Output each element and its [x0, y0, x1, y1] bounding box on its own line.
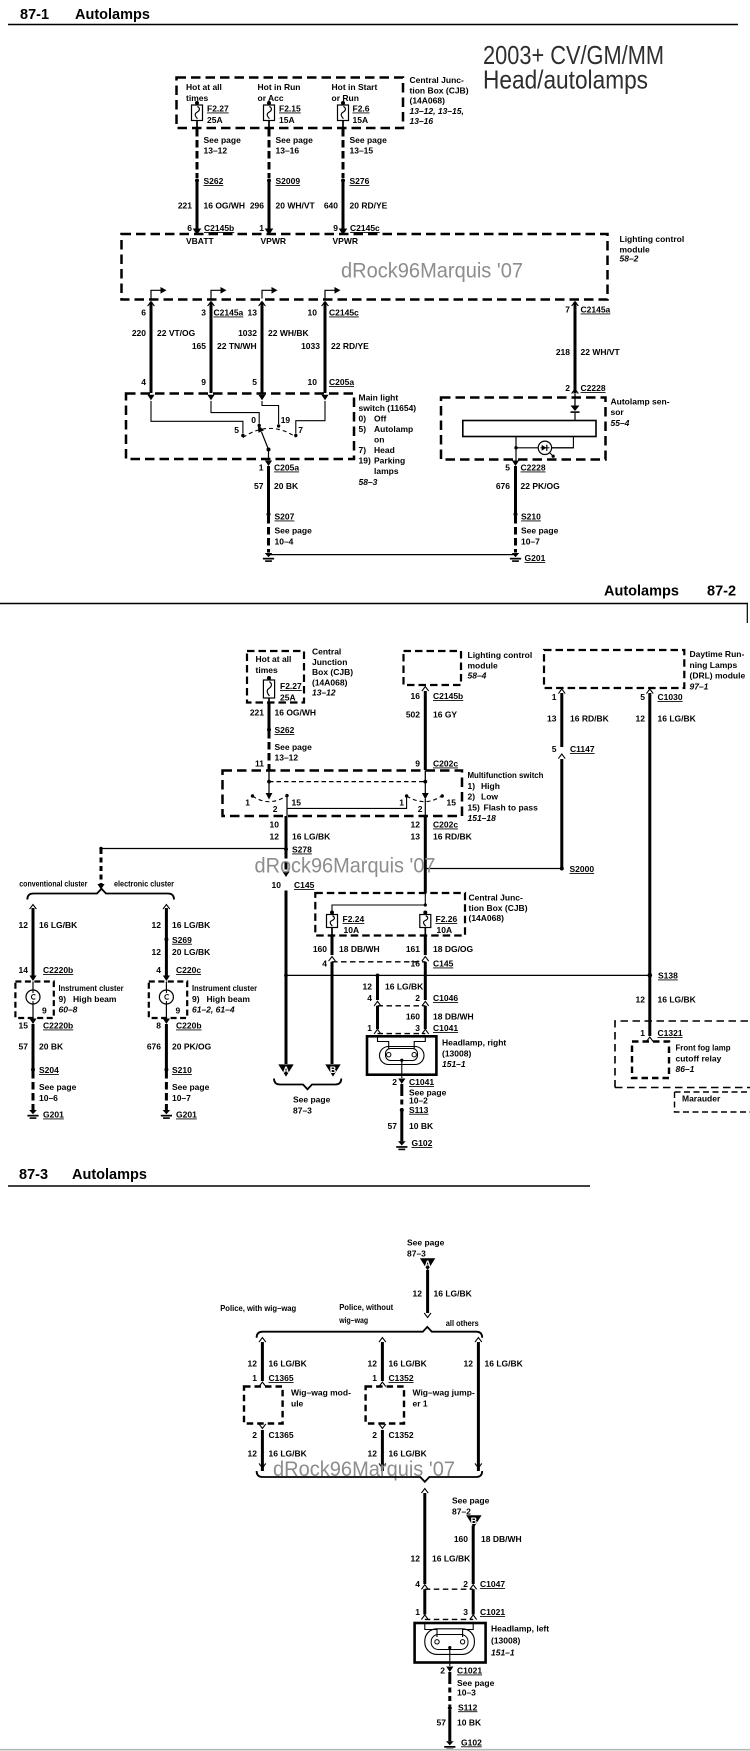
brace cluster alternatives	[27, 889, 174, 900]
svg-text:4: 4	[322, 959, 327, 969]
svg-text:13–15: 13–15	[350, 146, 374, 156]
svg-text:See page: See page	[452, 1496, 490, 1506]
svg-text:C1030: C1030	[658, 692, 683, 702]
svg-text:151–1: 151–1	[491, 1648, 515, 1658]
svg-text:87–2: 87–2	[452, 1507, 471, 1517]
svg-text:5: 5	[640, 692, 645, 702]
label see page 10-2	[409, 1088, 447, 1106]
label hot in start or run	[332, 82, 378, 103]
fuse F2.27 25A (page 87-2)	[263, 676, 302, 703]
svg-text:87-2: 87-2	[707, 584, 736, 600]
sensor body rectangle	[463, 421, 596, 437]
svg-text:1): 1)	[468, 781, 476, 791]
svg-text:S278: S278	[292, 845, 312, 855]
wire S262 to multifunction switch pin 11 (dashed)	[268, 731, 271, 770]
svg-text:160: 160	[454, 1534, 468, 1544]
central junction box CJB (14A068)	[177, 78, 404, 129]
wire S276 to VPWR pin 9	[342, 182, 345, 229]
svg-text:F2.6: F2.6	[353, 104, 370, 114]
label instrument cluster 60-8	[59, 983, 125, 1015]
wire 13 16 RD/BK	[547, 693, 610, 747]
marauder box	[675, 1092, 750, 1112]
svg-text:13: 13	[248, 308, 258, 318]
svg-text:60–8: 60–8	[59, 1005, 78, 1015]
svg-text:See page: See page	[172, 1082, 210, 1092]
svg-text:640: 640	[324, 201, 338, 211]
svg-text:16 LG/BK: 16 LG/BK	[389, 1359, 428, 1369]
wire 218 22 WH/VT	[556, 302, 621, 394]
wire fuse F2.27 to S262 (dashed)	[196, 121, 198, 129]
mf right contact 1	[399, 794, 408, 807]
svg-text:1: 1	[399, 798, 404, 808]
svg-text:C2145c: C2145c	[350, 223, 380, 233]
splice S112	[448, 1702, 478, 1712]
svg-text:15A: 15A	[279, 115, 295, 125]
wire 160 18 DB/WH from B	[454, 1526, 522, 1585]
svg-text:10: 10	[272, 880, 282, 890]
svg-text:676: 676	[496, 481, 510, 491]
wire label 12 16 LG/BK conv	[19, 920, 79, 930]
headlamp left bulb	[425, 1623, 437, 1637]
svg-text:2: 2	[440, 1666, 445, 1676]
svg-text:6: 6	[187, 223, 192, 233]
svg-text:55–4: 55–4	[611, 418, 630, 428]
splice S262	[195, 176, 224, 186]
svg-text:12: 12	[248, 1359, 258, 1369]
pin 13 chevron and label	[248, 302, 266, 318]
svg-text:10–3: 10–3	[457, 1687, 476, 1697]
wire 160 18 DB/WH below F2.24	[313, 928, 380, 956]
svg-text:160: 160	[313, 944, 327, 954]
label central junction box 3	[469, 893, 528, 924]
svg-text:C1352: C1352	[389, 1373, 414, 1383]
svg-text:See page: See page	[275, 526, 313, 536]
svg-text:S204: S204	[39, 1065, 59, 1075]
svg-text:5: 5	[505, 463, 510, 473]
svg-text:S269: S269	[172, 935, 192, 945]
label see page 10-7	[521, 526, 559, 547]
pin 2 C1365	[252, 1424, 294, 1440]
label wig-wag jumper 1	[413, 1388, 475, 1409]
wire F2.27 to S262 2	[268, 698, 270, 704]
svg-text:19): 19)	[359, 456, 371, 466]
high beam indicator bulb conventional	[32, 982, 34, 991]
svg-text:See page: See page	[457, 1678, 495, 1688]
label daytime running lamps module 97-1	[690, 649, 746, 691]
svg-text:12: 12	[363, 982, 373, 992]
svg-text:C1021: C1021	[480, 1607, 505, 1617]
svg-text:16: 16	[411, 691, 421, 701]
connector C1047 line	[415, 1579, 505, 1589]
wire S138 interconnect line	[286, 974, 650, 976]
svg-text:10: 10	[308, 377, 318, 387]
svg-text:(DRL) module: (DRL) module	[690, 671, 746, 681]
arrow into lighting control module pin 6	[193, 229, 202, 236]
svg-text:Main light: Main light	[359, 393, 399, 403]
svg-text:F2.24: F2.24	[343, 914, 365, 924]
svg-text:220: 220	[132, 328, 146, 338]
central junction box CJB 3 box	[315, 893, 465, 936]
label main light switch 11654	[359, 393, 417, 488]
brace see page 87-3	[274, 1079, 341, 1090]
svg-text:22 VT/OG: 22 VT/OG	[157, 328, 196, 338]
branch junction on S138 line	[376, 974, 380, 978]
wire 160 18 DB/WH to C1041	[406, 1006, 474, 1029]
svg-text:18 DG/OG: 18 DG/OG	[433, 944, 474, 954]
svg-text:221: 221	[250, 708, 264, 718]
photocell to sensor body wire	[552, 437, 574, 448]
pin 5 C1030 DRL	[640, 689, 683, 702]
wire 165 22 TN/WH	[192, 302, 257, 393]
wire 12 16 LG/BK branch	[363, 975, 425, 1000]
label see page 13-12	[204, 135, 242, 156]
svg-text:5: 5	[252, 377, 257, 387]
label wig-wag module	[291, 1388, 351, 1409]
svg-text:C1021: C1021	[457, 1666, 482, 1676]
svg-text:or Acc: or Acc	[258, 93, 284, 103]
switch contact 7	[294, 425, 303, 437]
svg-text:C1147: C1147	[570, 744, 595, 754]
svg-text:C1041: C1041	[409, 1077, 434, 1087]
svg-text:9): 9)	[59, 994, 67, 1004]
svg-text:15): 15)	[468, 802, 480, 812]
svg-text:7: 7	[565, 305, 570, 315]
svg-text:58–4: 58–4	[468, 671, 487, 681]
svg-text:C220b: C220b	[176, 1021, 202, 1031]
svg-text:1: 1	[252, 1373, 257, 1383]
svg-text:Low: Low	[481, 792, 498, 802]
wire label 12 16 LG/BK elec	[152, 920, 212, 930]
svg-text:or Run: or Run	[332, 93, 359, 103]
svg-text:9: 9	[415, 759, 420, 769]
svg-text:See page: See page	[204, 135, 242, 145]
pin 5 C1147	[552, 744, 595, 759]
svg-text:High beam: High beam	[73, 994, 117, 1004]
svg-text:0: 0	[251, 415, 256, 425]
svg-text:S207: S207	[275, 512, 295, 522]
svg-text:Lighting control: Lighting control	[620, 234, 685, 244]
svg-text:0): 0)	[359, 414, 367, 424]
wire C1047 to C1021 left	[423, 1589, 426, 1614]
svg-text:151–1: 151–1	[442, 1059, 466, 1069]
svg-text:221: 221	[178, 201, 192, 211]
svg-text:High: High	[481, 781, 500, 791]
svg-text:Lighting control: Lighting control	[468, 650, 533, 660]
label instrument cluster 61-2 61-4	[192, 983, 258, 1015]
svg-text:C220c: C220c	[176, 965, 201, 975]
svg-text:20 PK/OG: 20 PK/OG	[172, 1042, 212, 1052]
pin 6 C2145b	[187, 223, 234, 233]
headlamp left box	[415, 1623, 486, 1663]
pin 1 C1321	[640, 1028, 683, 1042]
svg-text:10–4: 10–4	[275, 537, 294, 547]
front fog lamp cutoff relay outer box	[615, 1021, 750, 1088]
svg-text:25A: 25A	[280, 693, 296, 703]
svg-text:1: 1	[372, 1373, 377, 1383]
svg-text:C2145a: C2145a	[214, 308, 244, 318]
label lighting control module 58-2	[620, 234, 685, 264]
svg-text:160: 160	[406, 1012, 420, 1022]
svg-text:Autolamp sen-: Autolamp sen-	[611, 397, 670, 407]
svg-text:Headlamp, right: Headlamp, right	[442, 1038, 506, 1048]
svg-text:16 OG/WH: 16 OG/WH	[275, 708, 317, 718]
svg-text:12: 12	[636, 714, 646, 724]
pin 1 C205a switch output	[259, 461, 300, 473]
svg-text:F2.27: F2.27	[207, 104, 229, 114]
svg-text:Police, with wig–wag: Police, with wig–wag	[220, 1303, 296, 1313]
svg-text:2): 2)	[468, 792, 476, 802]
wire from brace to C1047	[421, 1489, 428, 1585]
svg-text:57: 57	[254, 481, 264, 491]
svg-text:See page: See page	[276, 135, 314, 145]
svg-text:Multifunction switch: Multifunction switch	[468, 770, 544, 780]
svg-text:S276: S276	[350, 176, 370, 186]
svg-text:2: 2	[252, 1430, 257, 1440]
headlamp right box	[367, 1036, 436, 1074]
svg-text:VPWR: VPWR	[261, 236, 287, 246]
svg-text:G201: G201	[525, 553, 546, 563]
wire S204 to ground dashed	[32, 1071, 35, 1110]
svg-text:4: 4	[367, 993, 372, 1003]
label see page 10-4	[275, 526, 313, 547]
instrument cluster box conventional	[15, 982, 53, 1019]
label see page 87-2	[452, 1496, 490, 1517]
central junction box CJB 2 (F2.27)	[247, 651, 304, 703]
pin 1 C1352	[372, 1373, 414, 1387]
svg-text:F2.26: F2.26	[436, 914, 458, 924]
junction to S2000 line	[425, 868, 562, 870]
page header Autolamps 87-2	[0, 584, 748, 624]
wire C145 to arrow A	[285, 891, 288, 1065]
svg-text:12: 12	[464, 1359, 474, 1369]
pin 10 C145	[272, 880, 315, 890]
svg-text:S262: S262	[204, 176, 224, 186]
svg-text:20 BK: 20 BK	[274, 481, 299, 491]
wire S210 to ground (dashed)	[514, 516, 517, 553]
svg-text:cutoff relay: cutoff relay	[676, 1053, 722, 1063]
module output symbol pin 6 (VT/OG)	[151, 290, 161, 298]
pin 1 DRL	[552, 689, 565, 702]
wire fuse F2.15 to S2009 (dashed)	[268, 121, 270, 129]
svg-text:C145: C145	[294, 880, 315, 890]
ground G201 electronic	[161, 1110, 197, 1120]
wire 1033 22 RD/YE	[301, 302, 369, 393]
svg-text:218: 218	[556, 347, 570, 357]
svg-text:See page: See page	[350, 135, 388, 145]
wire 12 16 LG/BK DRL to S138	[636, 693, 697, 974]
svg-text:ning Lamps: ning Lamps	[690, 660, 738, 670]
pin 4 C220c	[156, 965, 201, 981]
label hot at all times	[186, 82, 222, 103]
splice S269	[164, 935, 192, 945]
svg-text:C2145b: C2145b	[433, 691, 463, 701]
svg-text:1032: 1032	[238, 328, 257, 338]
svg-text:Hot in Start: Hot in Start	[332, 82, 378, 92]
mf switch left wiper	[268, 782, 270, 794]
label see page 87-3 incoming	[407, 1238, 445, 1259]
wire 12 16 LG/BK all others	[464, 1338, 524, 1472]
svg-text:Hot in Run: Hot in Run	[258, 82, 301, 92]
label police without wig-wag	[338, 1302, 393, 1325]
svg-text:1: 1	[367, 1023, 372, 1033]
mf switch right feed node	[424, 771, 426, 782]
svg-text:C2220b: C2220b	[43, 1021, 73, 1031]
svg-text:2: 2	[565, 383, 570, 393]
svg-text:12: 12	[368, 1359, 378, 1369]
connector C145 line	[322, 957, 453, 969]
switch internal wire from pin 4	[151, 401, 243, 434]
switch internal wire from pin 5	[262, 401, 279, 424]
pin 7 chevron and label C2145a	[565, 302, 610, 315]
svg-text:86–1: 86–1	[676, 1064, 695, 1074]
front fog lamp cutoff relay K1 box	[632, 1042, 669, 1079]
pin 15 C2220b	[19, 1019, 74, 1031]
svg-text:C1046: C1046	[433, 993, 458, 1003]
wire S262 to C2145b pin 6	[196, 182, 199, 229]
wire S2009 to VPWR pin 1	[268, 182, 271, 229]
multifunction switch box	[223, 771, 463, 817]
svg-text:Junction: Junction	[312, 657, 347, 667]
splice S2009	[267, 176, 300, 186]
label see page 10-3	[457, 1678, 495, 1698]
svg-text:10: 10	[308, 308, 318, 318]
svg-text:16 LG/BK: 16 LG/BK	[269, 1359, 308, 1369]
arrow into lighting control module pin 9	[339, 229, 348, 236]
svg-text:er 1: er 1	[413, 1399, 428, 1409]
wire 161 18 DG/OG below F2.26	[406, 928, 474, 956]
svg-text:2: 2	[415, 993, 420, 1003]
svg-text:C2145b: C2145b	[204, 223, 234, 233]
ground G102 left	[444, 1737, 482, 1750]
svg-text:2: 2	[418, 804, 423, 814]
pin 6 chevron and label	[141, 302, 154, 318]
svg-text:22 PK/OG: 22 PK/OG	[521, 481, 561, 491]
svg-text:S112: S112	[458, 1702, 478, 1712]
wire 57 20 BK	[254, 466, 299, 514]
svg-text:9: 9	[333, 223, 338, 233]
svg-text:16 LG/BK: 16 LG/BK	[485, 1359, 524, 1369]
pin 3 chevron and label C2145a	[201, 302, 243, 318]
svg-text:25A: 25A	[207, 115, 223, 125]
svg-text:High beam: High beam	[207, 994, 251, 1004]
splice S207	[267, 512, 295, 522]
svg-text:57: 57	[437, 1718, 447, 1728]
svg-text:97–1: 97–1	[690, 681, 709, 691]
label multifunction switch 151-18	[468, 770, 544, 823]
svg-text:on: on	[374, 435, 384, 445]
svg-text:Autolamps: Autolamps	[604, 584, 679, 600]
svg-text:18 DB/WH: 18 DB/WH	[339, 944, 380, 954]
svg-text:2: 2	[273, 804, 278, 814]
svg-text:10A: 10A	[344, 925, 360, 935]
wig-wag module box	[244, 1387, 283, 1424]
pin 1 C1365	[252, 1373, 294, 1387]
svg-text:19: 19	[281, 415, 291, 425]
svg-text:VBATT: VBATT	[186, 236, 215, 246]
splice S276	[341, 176, 370, 186]
wire label 296 20 WH/VT	[250, 201, 316, 211]
pin 12 C202c mf output	[411, 820, 459, 830]
switch internal wire from pin 9	[211, 401, 259, 424]
pin 2 C1041 headlamp right output	[392, 1077, 434, 1087]
pin 9 into switch	[201, 377, 214, 400]
svg-text:16 GY: 16 GY	[433, 710, 457, 720]
svg-text:Autolamp: Autolamp	[374, 424, 413, 434]
svg-text:3: 3	[415, 1023, 420, 1033]
splice S2000	[560, 864, 595, 874]
svg-text:18 DB/WH: 18 DB/WH	[481, 1534, 522, 1544]
svg-text:12: 12	[636, 995, 646, 1005]
svg-text:Central: Central	[312, 647, 341, 657]
svg-text:wig–wag: wig–wag	[338, 1315, 368, 1325]
splice S210	[514, 512, 542, 522]
svg-text:Marauder: Marauder	[682, 1094, 721, 1104]
svg-text:Hot at all: Hot at all	[186, 82, 222, 92]
svg-text:151–18: 151–18	[468, 813, 497, 823]
wire into sensor	[574, 394, 576, 406]
svg-text:G201: G201	[176, 1110, 197, 1120]
svg-text:12: 12	[270, 832, 280, 842]
svg-text:2: 2	[392, 1077, 397, 1087]
svg-text:1: 1	[245, 798, 250, 808]
mf right output wire	[424, 799, 426, 816]
svg-text:13: 13	[547, 714, 557, 724]
svg-text:20 LG/BK: 20 LG/BK	[172, 947, 211, 957]
mf left contact 15	[285, 794, 301, 808]
splice S210 elec	[164, 1065, 192, 1075]
mf right arc	[407, 796, 443, 802]
svg-text:dRock96Marquis '07: dRock96Marquis '07	[341, 260, 523, 283]
svg-text:7): 7)	[359, 445, 367, 455]
svg-text:times: times	[256, 665, 278, 675]
label central junction box	[410, 75, 469, 126]
ground G201 conventional	[27, 1110, 64, 1120]
svg-text:1: 1	[259, 463, 264, 473]
svg-text:(13008): (13008)	[442, 1048, 471, 1058]
svg-text:10: 10	[270, 820, 280, 830]
label central junction box 2	[312, 647, 353, 698]
svg-text:5: 5	[234, 425, 239, 435]
label see page 87-3	[293, 1095, 331, 1116]
svg-text:16 LG/BK: 16 LG/BK	[172, 920, 211, 930]
daytime running lamps DRL module box	[544, 650, 684, 688]
page header 87-1 Autolamps	[8, 7, 738, 25]
svg-text:9: 9	[201, 377, 206, 387]
svg-text:4: 4	[141, 377, 146, 387]
wire C1147 to S2000	[560, 759, 563, 868]
svg-text:16 LG/BK: 16 LG/BK	[658, 995, 697, 1005]
svg-text:15: 15	[292, 798, 302, 808]
svg-text:57: 57	[19, 1042, 29, 1052]
wire 12 20 LG/BK elec	[152, 941, 212, 978]
splice S113	[400, 1105, 429, 1115]
switch rotor arc	[243, 428, 296, 437]
pin 10 chevron and label C2145c	[308, 302, 360, 318]
svg-text:Instrument cluster: Instrument cluster	[59, 983, 125, 993]
svg-text:12: 12	[19, 920, 29, 930]
connector C1041 line	[367, 1023, 458, 1034]
wire S207 to ground (dashed)	[267, 516, 270, 553]
svg-text:1: 1	[640, 1028, 645, 1038]
svg-text:3: 3	[463, 1607, 468, 1617]
svg-text:1033: 1033	[301, 341, 320, 351]
junction dot wire A to S138 line	[284, 974, 288, 978]
svg-text:5: 5	[552, 744, 557, 754]
svg-text:9: 9	[176, 1006, 181, 1016]
svg-text:87-3: 87-3	[19, 1167, 48, 1183]
instrument cluster box electronic	[149, 982, 187, 1019]
mf switch left feed node	[268, 771, 270, 782]
